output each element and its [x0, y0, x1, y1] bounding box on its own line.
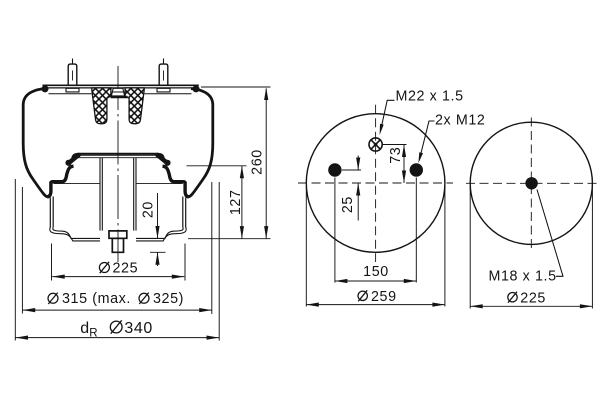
wire: extension line mid (127 dim at piston shoulder level)	[187, 165, 247, 167]
dim Ø225 (left view) line	[52, 276, 184, 278]
bumper nut block	[111, 88, 124, 96]
centerline vertical (right view)	[530, 118, 532, 250]
dim 25 upper arrow	[357, 156, 359, 171]
centerline horizontal (right view)	[466, 182, 598, 184]
svg-text:150: 150	[363, 264, 389, 280]
dim 73 tick from port	[383, 144, 407, 146]
dim 127 line	[241, 166, 243, 239]
dim Ø259 line	[306, 304, 445, 306]
bellows bead right (clamped edge, thick wedge)	[158, 155, 167, 163]
svg-text:M22 x 1.5: M22 x 1.5	[396, 88, 464, 104]
piston web left	[54, 183, 101, 185]
stud right	[157, 59, 170, 92]
bolt M18 (filled center)	[525, 177, 537, 189]
dim 25 tick from bolt	[342, 169, 361, 171]
stud left	[66, 59, 79, 92]
bottom bolt head	[109, 231, 127, 238]
dim 20 upper line + arrow	[157, 193, 159, 238]
dim Ø225 (right view) extension lines	[470, 186, 592, 309]
dim 73 line	[403, 145, 405, 184]
dim Ø315 line	[23, 309, 212, 311]
svg-text:259: 259	[371, 289, 397, 305]
piston skirt wall right (double line)	[183, 197, 186, 228]
wire: extension line top (260 dim at top plate level)	[201, 86, 271, 88]
top plate rolled edge left	[42, 85, 49, 92]
bottom bolt shank	[112, 238, 123, 252]
bolt M12 right (filled)	[410, 163, 423, 176]
piston bottom plate left (double S-profile)	[53, 227, 100, 239]
svg-text:225: 225	[113, 261, 139, 277]
centerline (vertical) of left view	[117, 66, 119, 262]
svg-text:73: 73	[388, 147, 404, 164]
circle (piston Ø225)	[470, 122, 592, 244]
bumper nut seat (thick bar)	[112, 91, 125, 93]
bellows outer wall + rolling lobe + wrap, left (thick)	[23, 89, 47, 197]
label Ø259	[358, 290, 367, 301]
top plate rolled edge right	[193, 85, 200, 92]
rubber bumper right lobe (cross-hatched)	[125, 88, 144, 124]
rubber bumper left lobe (cross-hatched)	[92, 88, 111, 124]
dim 150 extension lines	[335, 178, 416, 283]
svg-text:225: 225	[520, 291, 546, 307]
piston bottom plate right (double S-profile)	[136, 227, 183, 239]
piston dome top	[72, 154, 163, 159]
leader M18	[537, 190, 564, 277]
top plate	[43, 84, 199, 86]
dim Ø225 (left view) extension lines	[52, 244, 186, 281]
centerline vertical (middle view)	[375, 105, 377, 262]
svg-text:M18 x 1.5: M18 x 1.5	[489, 268, 557, 284]
svg-text:20: 20	[140, 201, 156, 218]
piston dome clamp strip	[78, 155, 162, 157]
svg-text:25: 25	[340, 196, 356, 213]
air port M22 (crossed circle)	[369, 138, 382, 151]
svg-text:260: 260	[250, 149, 266, 175]
bellows bead left (clamped edge, thick wedge)	[69, 155, 78, 163]
dim Ø225 (right view) line	[470, 305, 592, 307]
piston skirt wall left (double line)	[50, 197, 53, 228]
svg-text:315 (max.: 315 (max.	[62, 291, 131, 307]
svg-text:127: 127	[228, 189, 244, 215]
centerline horizontal (middle view)	[298, 182, 453, 184]
circle (bead plate Ø259)	[306, 114, 445, 253]
dim Ø259 extension lines	[306, 186, 445, 307]
wire: extension line bottom (piston bottom level)	[188, 238, 271, 240]
bolt M12 left (filled)	[328, 163, 341, 176]
label Ø225 (right view)	[508, 292, 517, 303]
svg-text:2x M12: 2x M12	[435, 113, 485, 129]
dim dR Ø340 line	[16, 337, 220, 339]
svg-text:R: R	[89, 328, 98, 340]
piston center tube right wall (double line)	[134, 158, 136, 231]
dim 25 lower arrow	[357, 183, 359, 221]
svg-text:325): 325)	[153, 291, 184, 307]
leader M22	[381, 100, 395, 129]
dim dR Ø340 extension lines	[15, 179, 219, 341]
label Ø315 (max. Ø325)	[48, 293, 149, 304]
bellows outer wall + rolling lobe + wrap, right (thick)	[188, 89, 212, 197]
leader 2x M12	[420, 121, 434, 157]
piston web right	[136, 183, 183, 185]
label Ø225 (left view)	[99, 262, 109, 273]
dim 260 line	[265, 89, 267, 239]
piston center tube left wall (double line)	[100, 158, 102, 231]
dim 20 lower tick + arrow	[150, 252, 166, 266]
svg-text:340: 340	[124, 320, 152, 337]
dim Ø315 extension lines	[22, 182, 211, 314]
dim 150 line	[335, 280, 416, 282]
